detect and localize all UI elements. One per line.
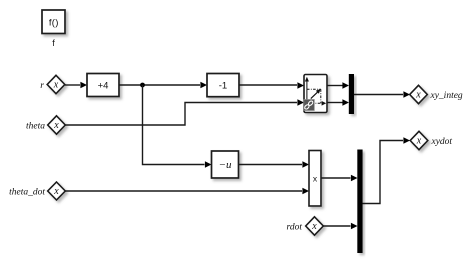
inport theta — [48, 116, 66, 134]
outport xy_integ — [410, 85, 428, 103]
svg-text:r: r — [40, 81, 44, 91]
svg-text:-1: -1 — [219, 80, 227, 91]
wire mux1 to xy_integ — [354, 91, 410, 98]
svg-text:−u: −u — [219, 159, 232, 171]
wire junction to -u — [143, 85, 212, 168]
icon dash-dot h — [307, 88, 321, 90]
svg-text:x: x — [311, 221, 317, 232]
subsystem XY (linked) — [304, 75, 327, 113]
svg-text:+4: +4 — [98, 80, 109, 91]
gain -1 — [207, 74, 239, 97]
svg-text:x: x — [53, 79, 59, 90]
gain +4 — [87, 74, 119, 97]
wire rdot to mux2 — [323, 223, 357, 230]
svg-text:x: x — [416, 135, 422, 146]
svg-text:xy_integ: xy_integ — [430, 91, 463, 101]
svg-text:x: x — [415, 89, 421, 100]
wire XY out2 to mux1 — [327, 99, 349, 106]
icon y-axis arrow — [306, 80, 308, 101]
outport xydot — [410, 131, 428, 149]
inport theta_dot — [48, 182, 66, 200]
svg-text:xydot: xydot — [431, 137, 453, 147]
svg-text:f: f — [52, 38, 55, 48]
svg-text:x: x — [53, 120, 59, 131]
junction — [140, 83, 145, 88]
inport rdot — [306, 217, 324, 235]
inport r — [47, 75, 65, 93]
mux M2 — [357, 150, 362, 254]
svg-text:rdot: rdot — [287, 222, 303, 232]
wire XY out1 to mux1 — [327, 82, 349, 89]
wire r to +4 — [65, 82, 87, 89]
svg-text:theta_dot: theta_dot — [9, 187, 45, 197]
block f() — [42, 10, 65, 34]
wire -1 to XY in1 — [239, 82, 304, 89]
wire theta_dot to product in2 — [65, 188, 309, 195]
svg-text:f(): f() — [49, 17, 59, 28]
svg-text:x: x — [53, 186, 59, 197]
link badge — [304, 100, 315, 111]
wire -u to product in1 — [239, 161, 310, 168]
wire product to mux2 — [321, 175, 358, 182]
gain -u — [212, 151, 239, 178]
svg-text:theta: theta — [26, 121, 45, 131]
product X — [309, 151, 321, 207]
icon diagonal arrow — [311, 92, 318, 98]
icon bottom dash-dot arrow — [312, 102, 324, 104]
wire +4 to -1 — [119, 82, 207, 89]
icon dash-dot v — [320, 89, 322, 103]
wire theta to XY in2 — [65, 99, 304, 125]
mux M1 — [349, 74, 354, 114]
wire mux2 to xydot — [363, 137, 411, 203]
